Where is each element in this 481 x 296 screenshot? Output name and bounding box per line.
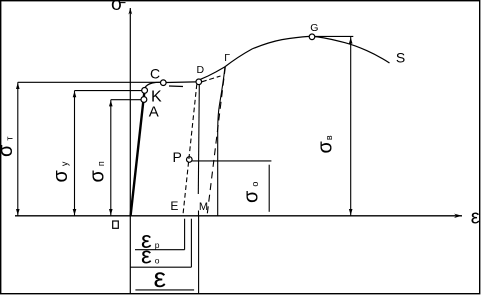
level line at C (sigma_t) bbox=[18, 81, 161, 83]
epsilon_o bracket bbox=[130, 219, 191, 268]
svg-text:P: P bbox=[173, 149, 182, 165]
sigma axis bbox=[128, 8, 132, 294]
P reference line bbox=[192, 160, 271, 162]
G reference line bbox=[315, 35, 353, 37]
node P circle bbox=[187, 157, 193, 163]
node A circle bbox=[141, 97, 147, 103]
label sigma_o (rotated) bbox=[241, 182, 263, 203]
descending curve G-S bbox=[315, 37, 390, 63]
dashed unloading line E-D bbox=[183, 84, 197, 214]
svg-text:ε: ε bbox=[471, 207, 480, 229]
level line at A (sigma_p) bbox=[111, 99, 141, 101]
svg-text:D: D bbox=[197, 64, 205, 76]
label sigma_p (rotated) bbox=[87, 161, 109, 182]
epsilon_p bracket bbox=[135, 219, 185, 250]
hardening curve D-G bbox=[201, 36, 310, 79]
node D circle bbox=[196, 79, 202, 85]
sigma_o bracket vertical bbox=[268, 165, 270, 212]
node C circle bbox=[161, 80, 167, 86]
origin O label bbox=[113, 221, 119, 228]
knee curve K to C bbox=[145, 82, 161, 88]
svg-text:E: E bbox=[170, 199, 178, 213]
svg-text:S: S bbox=[396, 50, 405, 66]
short segment under plateau bbox=[169, 85, 183, 88]
dashed line from Gamma to axis bbox=[207, 67, 225, 215]
elastic line O-K (thick) bbox=[131, 88, 145, 216]
label sigma_v (rotated) bbox=[315, 135, 337, 153]
level line at K (sigma_u) bbox=[75, 90, 142, 92]
svg-text:A: A bbox=[149, 104, 159, 121]
solid drop line from Gamma bbox=[218, 67, 225, 216]
svg-text:G: G bbox=[310, 22, 318, 34]
label sigma_t (rotated) bbox=[0, 137, 17, 157]
dimension line sigma_p bbox=[109, 100, 113, 216]
dimension line sigma_v bbox=[349, 37, 353, 216]
svg-text:ε: ε bbox=[154, 262, 166, 293]
epsilon axis bbox=[15, 214, 462, 218]
dimension line sigma_u bbox=[73, 91, 77, 216]
dimension line sigma_t bbox=[16, 82, 20, 215]
node G circle bbox=[309, 34, 315, 40]
svg-text:M: M bbox=[199, 201, 208, 213]
epsilon bracket right vertical below M bbox=[198, 216, 200, 293]
svg-text:Γ: Γ bbox=[224, 52, 230, 64]
node K circle bbox=[142, 88, 148, 94]
drop line D-M bbox=[198, 85, 199, 216]
svg-text:C: C bbox=[150, 65, 160, 81]
yield plateau C-D bbox=[166, 81, 196, 84]
label sigma_u (rotated) bbox=[50, 161, 72, 182]
epsilon bracket underline bbox=[135, 289, 194, 291]
dashed reload segment parallel to D-Gamma bbox=[202, 76, 221, 82]
